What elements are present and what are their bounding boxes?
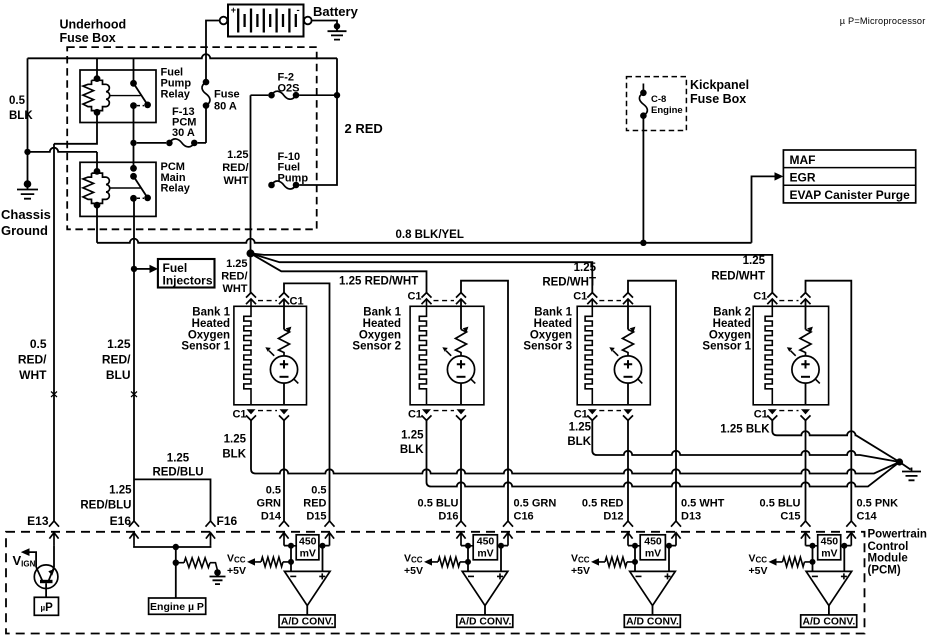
fuse 80 A [202,82,210,106]
svg-text:mV: mV [645,547,661,559]
connector C1 dashed tie (top, sensor 3) [599,300,621,302]
wire rail to fuel pump relay switch [133,58,135,83]
label Fuse 80 A [214,89,240,113]
svg-text:0.5 RED: 0.5 RED [582,498,624,510]
svg-text:1.25: 1.25 [401,430,424,442]
sensor 1 pickup arrow [269,351,274,356]
arrowhead Vcc (block 4) [769,558,777,565]
svg-text:Engine µ P: Engine µ P [150,601,204,613]
signal wire sensor 2 (C1 to element) [460,299,462,330]
underhood fuse box (dashed outline) [67,47,317,229]
label Powertrain Control Module (PCM) [868,529,927,577]
label 0.5 WHT D13 [681,498,725,523]
svg-text:Bank 1: Bank 1 [363,307,401,319]
fuse C-8 top terminal [640,90,647,97]
heater ground wire sensor 2 (1.25 BLK bus) [427,420,900,486]
plus input mark (block 2) [497,573,503,579]
svg-text:Ground: Ground [1,223,48,238]
svg-text:C-8: C-8 [651,94,666,105]
svg-text:µ P=Microprocessor: µ P=Microprocessor [840,16,926,26]
connector C1 sensor 1 signal (bottom) [279,409,289,420]
connector C1 sensor 1 heater (bottom) [246,409,256,420]
label 1.25 RED/WHT (sensor 1) [221,258,248,295]
svg-text:EGR: EGR [790,171,816,185]
wire 0.8 BLK/YEL rail (hops at x=134 and x=250) [97,239,752,243]
svg-text:1.25: 1.25 [226,258,247,270]
signal wire sensor 1 to PCM [283,420,285,521]
plus input mark (block 3) [665,573,671,579]
svg-text:RED/BLU: RED/BLU [80,500,131,512]
battery left terminal [220,17,228,25]
svg-text:1.25: 1.25 [227,149,248,161]
label 0.5 RED/WHT [18,337,47,382]
450 mV reference box (block 3) [640,535,665,560]
svg-text:Sensor 2: Sensor 2 [352,341,401,353]
heater ground wire sensor 3 (1.25 BLK bus) [592,420,899,462]
heater element sensor 1 [244,299,251,405]
svg-text:Sensor 3: Sensor 3 [523,341,572,353]
node F-13 junction [130,140,136,146]
Engine uP box [149,598,206,614]
plus mark sensor 1 [280,360,288,368]
bolt arrowhead sensor 3 [630,327,636,332]
splice mark on 0.5 RED/WHT [51,392,57,398]
svg-text:Module: Module [868,553,908,565]
svg-text:RED/: RED/ [221,271,247,283]
minus mark sensor 3 [624,376,633,378]
comparator op-amp (block 1) [284,571,330,605]
node fuel injectors tap [131,266,137,272]
svg-text:RED/WHT: RED/WHT [711,271,765,283]
svg-text:C1: C1 [573,291,587,303]
svg-text:C1: C1 [232,409,246,421]
Vcc pull-up resistor (block 3) [599,557,635,567]
svg-text:mV: mV [821,547,837,559]
sensor 2 lower tick [471,379,476,384]
svg-text:Sensor 1: Sensor 1 [181,341,230,353]
svg-text:BLK: BLK [400,444,424,456]
PCM main relay coil top terminal [94,168,101,175]
PCM main relay switch output [130,195,137,202]
label Vcc +5V (block 1) [227,553,246,578]
node 450mV right (block 4) [841,543,847,549]
arrowhead fuel injectors [150,265,159,273]
label 1.25 BLK (sensor 3) [567,422,591,449]
splice mark on 1.25 RED/BLU [131,392,137,398]
signal wire sensor 3 to PCM [627,420,629,521]
signal wire sensor 4 to PCM [805,420,807,521]
node 1.25 RED/WHT distribution [247,249,255,257]
signal wire sensor 4 (C1 to element) [805,299,807,330]
svg-text:Fuse: Fuse [214,89,240,101]
svg-text:+5V: +5V [227,565,246,577]
connector E13 at PCM [49,521,59,546]
svg-text:µP: µP [41,602,54,614]
variable arrow (bolt) sensor 4 [800,330,811,357]
oxygen sensor 3 box [577,306,650,405]
node kickpanel feed junction [640,240,646,246]
svg-text:Oxygen: Oxygen [188,329,230,341]
connector D16 at PCM [456,521,466,546]
label 0.5 RED D12 [582,498,624,523]
label 0.5 GRN C16 [514,498,557,523]
svg-text:+5V: +5V [571,565,590,577]
svg-text:0.5: 0.5 [311,485,326,497]
node 450mV left (block 3) [632,543,638,549]
wire 0.8 BLK/YEL up to EGR arrow [752,176,775,242]
svg-text:1.25: 1.25 [107,337,131,351]
label 1.25 RED/WHT (fuse box) [222,149,249,187]
fuse F-13 PCM 30A [137,139,206,147]
svg-text:30 A: 30 A [172,127,195,139]
connector C14 at PCM [846,521,856,546]
svg-text:450: 450 [477,535,495,547]
comparator op-amp (block 3) [630,571,676,605]
wire 3a entry to comparator minus [628,546,635,572]
connector C1 sensor 4 signal (bottom) [801,409,811,420]
svg-text:RED/: RED/ [222,162,248,174]
label F-10 Fuel Pump [278,151,309,185]
ground (heater return) [902,468,921,481]
label 450 mV (block 2) [477,535,495,559]
wire 2a entry to comparator minus [461,546,468,572]
label 0.5 BLU D16 [418,498,459,523]
variable arrow (bolt) sensor 3 [623,330,634,357]
wire PCM main relay coil to 0.8 BLK/YEL rail [96,205,98,243]
svg-text:0.5 BLU: 0.5 BLU [418,498,459,510]
connector C1 dashed tie (bottom, sensor 1) [258,410,277,412]
svg-text:Control: Control [868,541,909,553]
connector C16 at PCM [503,521,513,546]
node engine uP resistor junction [173,560,179,566]
node resistor/minus wire (block 4) [810,559,816,565]
sensor 3 pickup arrow [613,351,618,356]
label 0.5 BLK [9,95,33,122]
label 1.25 RED/BLU [102,337,131,382]
comparator output wire (block 3) [652,606,654,615]
svg-text:Pump: Pump [278,173,309,185]
plus input mark (block 1) [319,573,325,579]
fuel pump relay switch common [130,80,137,87]
450 mV box leads (block 1) [291,545,323,547]
fuse C-8 Engine [639,84,647,116]
fuel injectors box [158,259,215,288]
PCM main relay K2 box [80,162,156,216]
label Fuel Pump Relay [161,67,192,101]
transistor emitter arrowhead [48,569,54,576]
chassis ground [17,184,38,199]
svg-text:A/D CONV.: A/D CONV. [281,617,334,628]
fuse C-8 bottom terminal [640,112,647,119]
svg-text:Heated: Heated [713,318,751,330]
svg-text:C1: C1 [574,409,588,421]
svg-text:D12: D12 [603,511,623,523]
svg-text:D14: D14 [261,511,282,523]
svg-text:E16: E16 [110,514,132,528]
minus mark sensor 2 [457,376,466,378]
label 0.5 RED D15 [303,485,326,523]
svg-text:D15: D15 [306,511,326,523]
wire 1.25 RED/WHT to sensor 2 heater [251,253,427,292]
svg-text:Kickpanel: Kickpanel [690,78,749,92]
battery ground node [334,23,340,29]
wire chassis rail to PCM main relay coil [96,152,98,172]
svg-text:Oxygen: Oxygen [709,329,751,341]
connector F16 at PCM [206,521,216,546]
svg-text:Heated: Heated [192,318,230,330]
wire rail to fuel pump relay coil [96,58,98,78]
wire E13 to transistor collector [53,546,55,568]
svg-text:0.8 BLK/YEL: 0.8 BLK/YEL [396,229,464,241]
ground (battery) [328,26,347,39]
wire PCM main relay switch to fuel injectors / E16 [133,198,135,521]
svg-text:D13: D13 [681,511,701,523]
heater element sensor 3 [585,299,592,405]
transistor Q1 [34,565,58,589]
bolt arrowhead sensor 1 [286,327,292,332]
wire junction to ground [900,462,911,470]
svg-text:RED/: RED/ [18,353,47,367]
sensor element circle sensor 1 [270,356,297,383]
svg-text:C16: C16 [514,511,534,523]
svg-text:WHT: WHT [19,368,47,382]
svg-text:1.25: 1.25 [574,262,597,274]
battery plates [238,9,296,33]
label Bank 2 Heated Oxygen Sensor 1 [702,307,751,353]
battery right terminal [304,17,312,25]
label Chassis Ground [1,207,51,238]
sensor 2 pickup arrow [446,351,451,356]
label 1.25 BLK (sensor 1) [222,434,246,461]
label 1.25 RED/BLU (E16) [80,485,132,512]
wire 2 RED down right side of fuse box [299,58,337,185]
svg-text:Oxygen: Oxygen [359,329,401,341]
arrowhead Vcc (block 3) [591,558,599,565]
node 450mV right (block 2) [498,543,504,549]
svg-text:RED: RED [303,498,326,510]
svg-text:450: 450 [644,535,662,547]
svg-text:GRN: GRN [257,498,282,510]
label 1.25 RED/BLU (link) [152,453,203,479]
fuel pump relay switch output [130,102,137,109]
pickup arrowhead sensor 2 [442,347,448,352]
signal loop wire sensor 3 to PCM [628,281,676,521]
450 mV reference box (block 4) [818,535,841,560]
comparator op-amp (block 4) [806,571,852,605]
connector C1 dashed tie (top, sensor 1) [258,300,277,302]
battery ground wire [312,21,337,28]
wire fuel pump relay switch output to F-13 [133,106,135,143]
svg-text:C1: C1 [753,291,767,303]
svg-text:1.25: 1.25 [224,434,247,446]
node 450mV left (block 2) [465,543,471,549]
connector C1 sensor 4 heater (top) [767,293,777,305]
svg-text:C1: C1 [408,409,422,421]
node 450mV right (block 1) [320,543,326,549]
A/D CONV box (block 2) [457,615,513,627]
signal wire sensor 1 (C1 to element) [283,299,285,330]
svg-text:BLU: BLU [106,368,131,382]
connector C1 sensor 1 heater (top) [246,293,256,305]
450 mV reference box (block 1) [296,535,319,560]
sensor 4 circle to bottom connector wire [805,383,807,405]
svg-text:1.25: 1.25 [109,485,132,497]
minus input mark (block 4) [812,575,818,577]
oxygen sensor 4 box [753,306,828,405]
connector D12 at PCM [623,521,633,546]
svg-text:0.5 PNK: 0.5 PNK [857,498,899,510]
fuse F-2 O2S [251,91,338,99]
engine uP ground node [214,569,221,576]
svg-text:Bank 1: Bank 1 [192,307,230,319]
svg-text:0.5: 0.5 [30,337,47,351]
minus mark sensor 1 [280,376,289,378]
svg-text:-: - [297,5,300,16]
connector C1 sensor 4 heater (bottom) [767,409,777,420]
comparator output wire (block 4) [828,606,830,615]
svg-text:1.25 BLK: 1.25 BLK [720,424,770,436]
svg-text:450: 450 [821,535,839,547]
sensor 4 pickup arrow [791,351,796,356]
svg-text:Engine: Engine [651,105,683,116]
svg-text:Relay: Relay [161,183,191,195]
wire bus to resistor junction [175,547,177,563]
svg-text:(PCM): (PCM) [868,565,901,577]
wire E16/F16 pull-down bus [134,546,211,547]
svg-text:+5V: +5V [749,565,768,577]
Vcc pull-up resistor (block 1) [255,557,291,567]
svg-text:Fuse Box: Fuse Box [60,31,116,45]
wire 1a entry to comparator minus [284,546,291,572]
sensor 3 lower tick [638,379,643,384]
fuel pump relay switch contact (arm) [144,102,151,109]
svg-text:C15: C15 [780,511,800,523]
label Underhood Fuse Box [60,18,127,46]
450 mV reference box (block 2) [473,535,497,560]
svg-text:BLK: BLK [567,436,591,448]
connector E16 at PCM [129,521,139,546]
wire F-13 to Fuse 80A [205,106,207,143]
svg-text:+5V: +5V [404,565,423,577]
label F-13 PCM 30 A [172,106,196,139]
minus mark sensor 4 [801,376,810,378]
connector C1 sensor 2 heater (bottom) [422,409,432,420]
minus input mark (block 1) [290,575,296,577]
arrowhead into EGR [775,172,784,180]
fuse 80A top terminal [203,79,210,86]
PCM main relay switch pivot [130,173,137,180]
svg-text:0.5: 0.5 [266,485,281,497]
plus mark sensor 3 [624,360,632,368]
wire 3b entry to comparator plus [669,546,676,572]
node 450mV left (block 1) [288,543,294,549]
heater ground wire sensor 1 (1.25 BLK bus) [251,420,900,473]
svg-text:Oxygen: Oxygen [530,329,572,341]
arrowhead VIGN [21,548,30,556]
label 1.25 BLK (sensor 2) [400,430,424,457]
minus input mark (block 3) [636,575,642,577]
svg-text:D16: D16 [438,511,458,523]
fuel pump relay coil top terminal [94,75,101,82]
svg-text:WHT: WHT [222,283,247,295]
signal loop wire sensor 4 to PCM [806,281,852,521]
plus mark sensor 2 [457,360,465,368]
connector C1 sensor 2 signal (top) [456,293,466,305]
connector C1 dashed tie (bottom, sensor 4) [779,410,798,412]
connector C1 sensor 4 signal (top) [801,293,811,305]
svg-text:mV: mV [300,547,316,559]
A/D CONV box (block 3) [624,615,680,627]
heater ground wire sensor 4 (1.25 BLK bus) [772,420,899,462]
wire chassis ground rail (hops 0.5 RED/WHT wire) [28,148,98,152]
svg-text:+: + [231,5,236,15]
sensor 1 lower tick [294,379,299,384]
fuel pump relay switch [110,83,148,105]
svg-text:BLK: BLK [9,110,33,122]
svg-text:0.5 GRN: 0.5 GRN [514,498,557,510]
wire VIGN feed [30,552,37,567]
450 mV box leads (block 2) [468,545,501,547]
connector C1 dashed tie (bottom, sensor 2) [434,410,455,412]
label F-2 O2S [278,72,300,95]
svg-text:Heated: Heated [534,318,572,330]
fuel pump relay coil [83,80,110,110]
signal wire sensor 2 to PCM [460,420,462,521]
wire 0.5 RED/WHT down to E13 [53,144,55,521]
plus input mark (block 4) [841,573,847,579]
MAF/EGR/EVAP module box [783,150,915,203]
svg-text:0.5: 0.5 [9,95,26,107]
wire C-8 down to 0.8 BLK/YEL rail [642,116,644,243]
comparator output wire (block 2) [484,606,486,615]
node resistor/minus wire (block 3) [632,559,638,565]
connector C1 sensor 1 signal (top) [279,293,289,305]
svg-text:BLK: BLK [222,449,246,461]
connector D14 at PCM [279,521,289,546]
wire 1.25 RED/WHT to sensor 1 heater [250,253,252,292]
svg-text:1.25: 1.25 [743,255,766,267]
oxygen sensor 1 box [234,306,307,405]
svg-text:C1: C1 [407,291,421,303]
connector C1 sensor 3 signal (top) [623,293,633,305]
label Bank 1 Heated Oxygen Sensor 1 [181,307,230,353]
arrowhead Vcc (block 1) [247,558,255,565]
uP box [34,597,58,615]
transistor base bar [40,580,53,583]
arrowhead Vcc (block 2) [424,558,432,565]
450 mV box leads (block 4) [813,545,845,547]
wire 0.5 BLK [27,58,29,152]
node 450mV right (block 3) [666,543,672,549]
heater element sensor 2 [419,299,426,405]
connector C1 sensor 2 signal (bottom) [456,409,466,420]
svg-text:450: 450 [299,535,317,547]
minus input mark (block 2) [468,575,474,577]
connector C1 dashed tie (top, sensor 2) [434,300,455,302]
svg-text:Sensor 1: Sensor 1 [702,341,751,353]
chassis ground node [24,180,32,188]
fuse 80A bottom terminal [203,102,210,109]
fuse F-13 right terminal [191,140,198,147]
wire relay feed rail y=58 (hops battery wire) [28,54,338,58]
connector C15 at PCM [801,521,811,546]
connector C1 dashed tie (top, sensor 4) [779,300,798,302]
svg-text:C1: C1 [754,409,768,421]
connector C1 sensor 3 signal (bottom) [623,409,633,420]
label Fuel Injectors [163,261,213,288]
connector C1 sensor 3 heater (bottom) [587,409,597,420]
450 mV box leads (block 3) [635,545,669,547]
